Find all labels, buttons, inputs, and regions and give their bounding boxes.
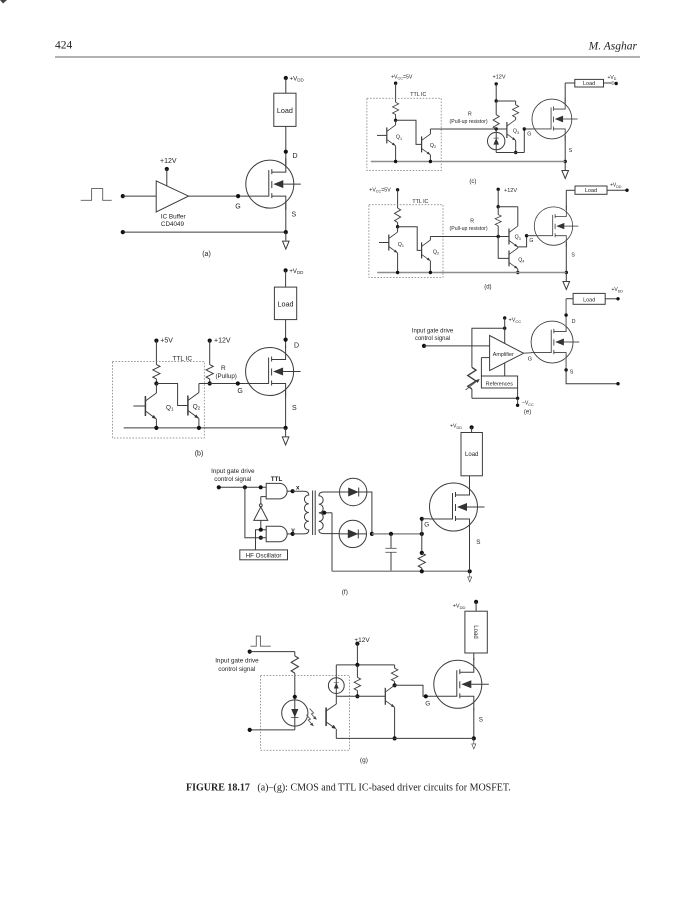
svg-text:(Pull-up resistor): (Pull-up resistor): [450, 119, 488, 125]
svg-text:Load: Load: [583, 297, 595, 303]
svg-text:Load: Load: [472, 625, 478, 638]
svg-text:(d): (d): [484, 285, 491, 291]
svg-text:G: G: [424, 522, 429, 529]
svg-text:Q4: Q4: [518, 257, 524, 263]
svg-text:Q2: Q2: [433, 249, 439, 255]
svg-text:+VDD: +VDD: [610, 183, 622, 189]
svg-text:+12V: +12V: [160, 158, 177, 165]
svg-text:Q3: Q3: [515, 235, 521, 241]
svg-text:CD4049: CD4049: [161, 221, 185, 228]
svg-text:Input gate drive: Input gate drive: [215, 658, 259, 665]
svg-text:+12V: +12V: [214, 338, 231, 345]
svg-text:control signal: control signal: [415, 336, 450, 342]
svg-text:G: G: [529, 238, 533, 244]
svg-text:G: G: [528, 356, 532, 362]
svg-text:D: D: [572, 319, 576, 325]
svg-text:+VDD: +VDD: [453, 604, 466, 610]
svg-text:+VDD: +VDD: [450, 424, 462, 430]
svg-text:Input gate drive: Input gate drive: [211, 468, 255, 475]
svg-text:y: y: [291, 527, 295, 534]
svg-text:S: S: [570, 370, 574, 376]
svg-text:Load: Load: [277, 106, 293, 115]
svg-text:S: S: [571, 253, 575, 259]
svg-text:Load: Load: [583, 81, 595, 87]
svg-text:Load: Load: [278, 300, 294, 309]
svg-text:+VDD: +VDD: [289, 268, 303, 275]
svg-text:(b): (b): [195, 451, 204, 458]
svg-text:M. Asghar: M. Asghar: [588, 41, 638, 53]
svg-text:D: D: [293, 153, 298, 160]
svg-text:+VCC: +VCC: [509, 318, 522, 324]
svg-text:IC Buffer: IC Buffer: [161, 213, 186, 220]
svg-text:Q1: Q1: [396, 135, 402, 141]
svg-text:(Pull-up resistor): (Pull-up resistor): [450, 226, 488, 232]
svg-text:Q3: Q3: [513, 129, 519, 135]
svg-text:control signal: control signal: [218, 666, 255, 673]
svg-text:G: G: [237, 388, 242, 395]
svg-text:G: G: [425, 701, 430, 708]
svg-text:(g): (g): [360, 757, 368, 764]
svg-text:−VCC: −VCC: [522, 401, 534, 407]
svg-text:HF Oscillator: HF Oscillator: [246, 553, 282, 560]
svg-text:+5V: +5V: [160, 338, 173, 345]
svg-text:R: R: [221, 365, 226, 372]
svg-text:control signal: control signal: [214, 476, 251, 483]
svg-text:Load: Load: [585, 188, 597, 194]
svg-text:S: S: [292, 405, 297, 412]
svg-text:TTL IC: TTL IC: [412, 199, 428, 205]
svg-text:G: G: [527, 132, 531, 138]
svg-text:(Pullup): (Pullup): [216, 373, 237, 380]
svg-text:Q2: Q2: [193, 403, 201, 410]
svg-text:424: 424: [55, 40, 73, 52]
svg-text:(e): (e): [524, 409, 531, 415]
svg-text:+VDD: +VDD: [290, 76, 304, 83]
svg-text:Input gate drive: Input gate drive: [412, 329, 454, 335]
svg-text:S: S: [292, 212, 297, 219]
svg-text:R: R: [470, 219, 474, 225]
svg-text:+VCC=5V: +VCC=5V: [391, 75, 413, 81]
svg-text:(f): (f): [342, 589, 348, 596]
svg-text:Load: Load: [465, 452, 478, 458]
svg-text:S: S: [479, 717, 483, 724]
svg-text:R: R: [468, 112, 472, 118]
svg-text:S: S: [476, 539, 480, 546]
svg-text:+12V: +12V: [504, 188, 517, 194]
svg-text:S: S: [569, 148, 573, 154]
svg-text:TTL IC: TTL IC: [410, 92, 426, 98]
svg-text:Q1: Q1: [166, 404, 174, 411]
svg-text:+VCC=5V: +VCC=5V: [369, 188, 391, 194]
svg-text:+VDD: +VDD: [612, 287, 624, 293]
svg-text:TTL: TTL: [271, 476, 283, 483]
svg-text:D: D: [294, 342, 299, 349]
svg-text:(c): (c): [469, 179, 476, 185]
svg-text:(a): (a): [202, 251, 211, 258]
svg-text:Q2: Q2: [430, 143, 436, 149]
svg-text:FIGURE 18.17 (a)–(g): CMOS a: FIGURE 18.17 (a)–(g): CMOS and TTL IC-ba…: [186, 783, 511, 794]
svg-text:+12V: +12V: [493, 75, 506, 81]
svg-text:x: x: [296, 485, 300, 492]
svg-text:Amplifier: Amplifier: [493, 352, 514, 358]
svg-text:G: G: [235, 204, 240, 211]
svg-text:Q1: Q1: [398, 242, 404, 248]
svg-text:D: D: [612, 81, 615, 86]
svg-text:References: References: [486, 381, 513, 387]
